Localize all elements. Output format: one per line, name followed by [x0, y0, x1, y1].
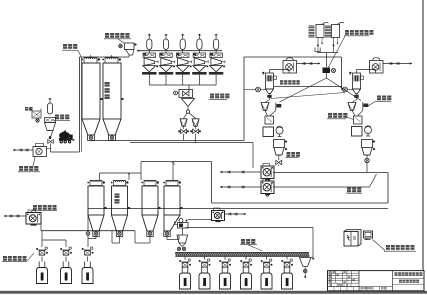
leader to control label [373, 240, 386, 251]
pre-filter suction string [4, 215, 26, 217]
leader to dosing valve [328, 36, 345, 68]
transport line to pump3 [88, 208, 388, 210]
label 拌合 (vertical) [115, 194, 120, 198]
valve under right hopper [365, 158, 369, 162]
air line to pump3 [188, 219, 212, 221]
feeder2 riser [65, 240, 67, 247]
pump1 suction string [220, 171, 261, 173]
label 搅拌机座 [328, 113, 332, 118]
title block [328, 271, 425, 291]
vacuum packer 4 [245, 256, 247, 260]
glue pump 1 [261, 166, 274, 179]
central dust collector [125, 43, 135, 50]
vacuum packer 6 [286, 256, 288, 260]
mixer unit left 搅拌机 [263, 127, 274, 137]
bag filter on silo2 [105, 58, 118, 64]
dosing bin unit 2 [163, 39, 168, 50]
hopper under right mixer [362, 140, 373, 148]
second air line [100, 172, 142, 174]
silo1 takeoff with valve [95, 237, 97, 239]
vacuum packer left 2 [60, 248, 62, 250]
vacuum packer left 3 [82, 248, 84, 250]
label 卸料阀 [287, 152, 291, 157]
liquid inject flag right [362, 102, 364, 111]
label 罗茨风机 [19, 166, 23, 171]
surge bag [47, 103, 52, 114]
sheet right border [422, 0, 424, 291]
pump unit 3 [212, 211, 225, 221]
glue pump 2 [261, 181, 274, 194]
inlet tick silo2 [111, 55, 113, 59]
liquid tank text stack 1 [309, 26, 315, 28]
aeration blower left [256, 87, 261, 92]
label 液体计量器件 [345, 30, 349, 35]
big silo 2 大料仓 [103, 63, 121, 119]
dosing header line with arrow [137, 50, 222, 52]
glue loop right [387, 173, 389, 204]
liquid inject flag left [275, 103, 277, 111]
batch silo filter 2 [114, 181, 126, 186]
label 切换阀 [63, 44, 67, 49]
vacuum supply line A [41, 230, 135, 232]
label 投料仓 [377, 96, 381, 101]
label 前级过滤器 [33, 205, 37, 210]
dosing bin unit 3 [180, 39, 185, 50]
liquid feed split [326, 73, 328, 78]
glue loop bottom [212, 202, 389, 204]
head funnel [177, 235, 188, 243]
batch silo 4 [164, 186, 180, 215]
aeration blower right [343, 87, 348, 92]
small receiver cup [315, 48, 320, 52]
dosing bin unit 4 [197, 39, 202, 50]
silo air header [141, 161, 212, 163]
hopper under dosing scale [182, 99, 195, 107]
dosing collect manifold [148, 74, 150, 85]
dosing scale circle [174, 91, 178, 95]
vacuum packer 2 [204, 256, 206, 260]
tank drop line 1 [317, 38, 319, 53]
screw weigher left 雷型电子秤 [266, 73, 274, 89]
batch silo filter 3 [144, 181, 156, 186]
head valves [177, 247, 180, 250]
drop to silo3 outlet [134, 231, 136, 243]
vacuum packer 5 [266, 256, 268, 260]
pipe riser to silo tops [79, 57, 81, 152]
label 大料仓 (vertical) [105, 82, 110, 87]
liquid tank 1 [316, 25, 324, 38]
batch silo 1 [88, 186, 104, 215]
label 中央控制系统 [386, 245, 390, 250]
batch silo 3 [142, 186, 158, 215]
vacuum packer 1 [184, 256, 186, 260]
vacuum packer left 1 [36, 248, 38, 250]
batch silo filter 1 [90, 181, 102, 186]
discharge line from big silos [91, 140, 244, 142]
arrow at truck [73, 139, 75, 141]
label 真空上料机 [3, 256, 7, 261]
label 长螺旋 [241, 239, 245, 244]
frame right drop [341, 57, 343, 90]
bag filter on silo1 [84, 58, 97, 64]
label 喷胶泵 [347, 188, 351, 193]
valve under surge hopper [48, 140, 54, 144]
silo4 to conveyor elbow [166, 237, 168, 240]
glue delivery pipe [273, 172, 388, 174]
dosing bin unit 1 [147, 39, 152, 50]
tiny vent filter label [25, 107, 28, 111]
hopper under left mixer [274, 140, 285, 148]
pre-filter pump unit [26, 213, 41, 225]
elevator box left [265, 116, 274, 124]
split to two discharge funnels [184, 113, 188, 119]
top pump unit left [283, 61, 297, 74]
screw conveyor 长螺旋 [175, 253, 309, 257]
weigher top pipe right [356, 70, 358, 74]
blower discharge pipe [50, 144, 52, 153]
feed funnel left mixer [269, 96, 271, 100]
label 集中除尘器 [105, 33, 109, 38]
tank drop line 2 [333, 38, 335, 53]
inlet tick silo1 [90, 55, 92, 59]
mixer truck [59, 132, 70, 140]
batch silo filter 4 [166, 181, 178, 186]
drop to silo2 outlet [111, 231, 113, 243]
valve under left hopper [276, 160, 282, 165]
batch silo 2 [112, 186, 128, 215]
discharge funnel A [180, 119, 187, 127]
surge hopper with screen [45, 118, 56, 123]
label 平仓仓 [55, 115, 59, 120]
label 雷型电子秤 [280, 80, 283, 84]
liquid tank text stack 2 [325, 26, 331, 28]
screw weigher right [353, 73, 361, 89]
blower suction valve string [13, 149, 33, 151]
dosing scale box 配料秤 [179, 90, 193, 98]
convey line to conveyor tail [186, 227, 313, 229]
liquid solenoid valve [323, 68, 331, 74]
dosing bin unit 5 [214, 39, 219, 50]
conveyor tail funnel [300, 258, 312, 267]
vent filter unit [32, 111, 41, 118]
riser to liquid station frame [243, 57, 245, 141]
glue return pipe [273, 186, 370, 188]
glue loop left [211, 162, 213, 204]
rotary valve at conveyor head [178, 223, 189, 229]
transfer diagonal [271, 93, 346, 99]
feeder1 riser [41, 231, 43, 247]
weigher top pipe left [269, 70, 271, 74]
silo top header line [80, 56, 130, 58]
monitor 电脑 [364, 231, 373, 238]
control cabinet [344, 230, 361, 247]
top pump unit right [370, 61, 384, 74]
liquid collect pipe [317, 52, 338, 54]
sheet bottom shadow band [0, 291, 427, 294]
pump2 suction string [220, 186, 261, 188]
frame top pipe [244, 56, 342, 58]
roots blower unit [33, 147, 47, 157]
label 配料秤 [210, 94, 214, 99]
feed funnel right mixer [356, 96, 358, 100]
elevator box right [354, 116, 363, 124]
liquid tank 2 [332, 25, 340, 38]
discharge funnel B [192, 119, 199, 127]
vacuum packer 3 [224, 256, 226, 260]
vacuum supply line B [42, 239, 66, 241]
pneumatic line to mixers [130, 142, 253, 144]
mixer unit right 搅拌机 [352, 127, 363, 137]
feed line to right unit [274, 86, 342, 88]
big silo 1 大料仓 [82, 63, 100, 119]
